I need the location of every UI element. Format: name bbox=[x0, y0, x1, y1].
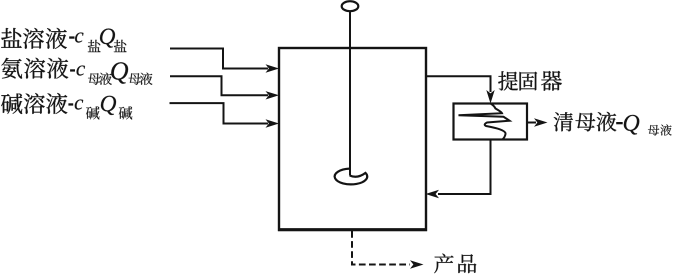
arrowhead: thickener outlet right bbox=[534, 118, 548, 126]
wire: dashed product outlet bbox=[352, 231, 410, 265]
label: clear mother liquor outlet text 清母液-Q母液 bbox=[554, 112, 672, 136]
reactor tank vessel bbox=[279, 48, 426, 230]
wire: tank outlet to thickener bbox=[426, 76, 491, 92]
wire: inlet 1 from salt label to tank bbox=[170, 49, 268, 69]
label: salt solution inlet text 盐溶液-c盐Q盐 bbox=[1, 28, 126, 52]
label: ammonia solution inlet text 氨溶液-c母液Q母液 bbox=[1, 58, 152, 85]
label: 提固器 thickener title bbox=[498, 71, 562, 91]
wire: thickener underflow return to tank bbox=[438, 140, 491, 195]
arrowhead: return into tank bbox=[426, 190, 440, 198]
thickener box 提固器 bbox=[454, 104, 528, 140]
arrowhead: inlet 1 into tank bbox=[266, 64, 280, 72]
wire: inlet 2 from ammonia label to tank bbox=[170, 76, 268, 95]
wire: thickener outlet to clear liquor label bbox=[527, 122, 536, 124]
arrowhead: inlet 3 into tank bbox=[266, 119, 280, 127]
arrowhead: product outlet bbox=[410, 260, 424, 268]
stirrer shaft and drive ellipse bbox=[342, 1, 359, 175]
thickener internal squiggle bbox=[459, 104, 510, 140]
arrowhead: into thickener top bbox=[486, 90, 494, 104]
wire: inlet 3 from alkali label to tank bbox=[170, 103, 269, 123]
stirrer impeller blade bbox=[335, 169, 368, 185]
reactor tank bottom edge (thicker) bbox=[278, 228, 427, 231]
label: alkali solution inlet text 碱溶液-c碱Q碱 bbox=[1, 93, 132, 119]
label: product outlet text 产品 bbox=[434, 254, 476, 274]
arrowhead: inlet 2 into tank bbox=[266, 91, 280, 99]
